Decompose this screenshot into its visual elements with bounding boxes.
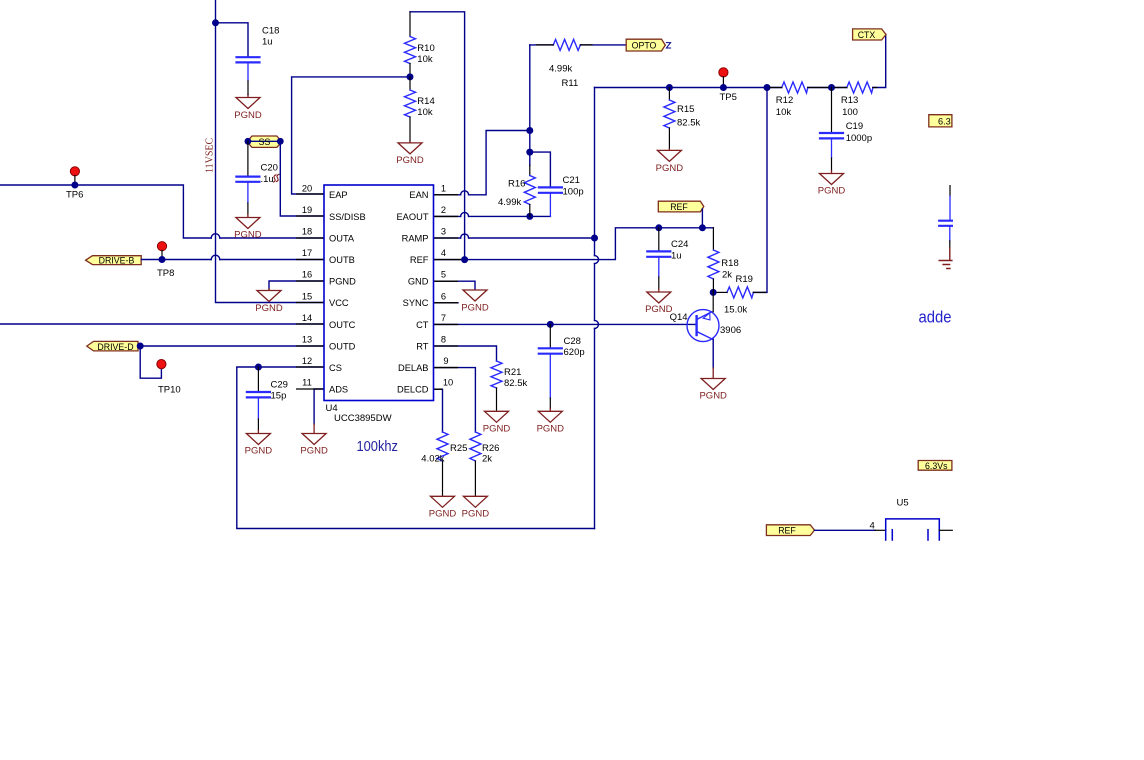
- svg-text:EAP: EAP: [329, 190, 348, 200]
- ground PGND pin11: [302, 424, 326, 445]
- svg-text:PGND: PGND: [537, 424, 565, 435]
- wire CS pin12: [237, 367, 595, 529]
- wire REF label stem: [701, 209, 703, 228]
- svg-text:15.0k: 15.0k: [724, 305, 747, 316]
- svg-text:620p: 620p: [564, 347, 585, 358]
- resistor R10: [409, 12, 411, 37]
- wire VCC vertical 11VSEC: [216, 0, 325, 303]
- port label DRIVE-D: [87, 341, 138, 351]
- svg-text:OUTA: OUTA: [329, 233, 355, 243]
- svg-text:R25: R25: [450, 443, 467, 454]
- capacitor C21: [539, 187, 562, 216]
- not-fitted squiggle on C20 value: [274, 174, 280, 182]
- wire Q14 collector down: [712, 339, 714, 368]
- U4 pin names right: [396, 190, 428, 394]
- wire DRIVE-D to OUTD: [138, 345, 324, 347]
- node R15 top: [666, 84, 673, 91]
- svg-text:PGND: PGND: [461, 303, 489, 314]
- svg-text:PGND: PGND: [645, 304, 673, 315]
- port label 6.3Vs bottom (clipped): [918, 461, 952, 471]
- wire hop riser over CT: [595, 320, 599, 328]
- ground PGND under C18: [236, 95, 260, 109]
- svg-text:15: 15: [302, 291, 312, 301]
- svg-text:1000p: 1000p: [846, 133, 872, 144]
- svg-text:R19: R19: [736, 274, 753, 285]
- ground GND right edge (clipped): [939, 248, 952, 269]
- ground PGND under R15: [657, 149, 681, 162]
- U4 pin names left: [329, 190, 366, 394]
- svg-text:82.5k: 82.5k: [677, 118, 700, 129]
- capacitor C19: [831, 88, 833, 132]
- wire top feedback rail: [595, 35, 886, 88]
- svg-text:SS: SS: [259, 137, 271, 147]
- svg-text:PGND: PGND: [429, 509, 457, 520]
- svg-text:SYNC: SYNC: [403, 298, 429, 308]
- U4 pin numbers left: [302, 183, 312, 387]
- op-amp U5 partial box: [886, 519, 940, 540]
- svg-text:10k: 10k: [776, 107, 792, 118]
- svg-text:17: 17: [302, 248, 312, 258]
- svg-text:10: 10: [443, 378, 453, 388]
- node REF pin4 junction: [461, 256, 468, 263]
- svg-text:DELCD: DELCD: [397, 385, 429, 395]
- resistor R15: [668, 88, 670, 101]
- svg-text:TP6: TP6: [66, 190, 83, 201]
- svg-text:PGND: PGND: [396, 155, 424, 166]
- svg-text:10k: 10k: [417, 54, 433, 65]
- resistor R25: [437, 432, 448, 461]
- wire OUTC pin14: [0, 323, 324, 325]
- svg-text:VCC: VCC: [329, 298, 349, 308]
- port label OPTO: [626, 39, 665, 51]
- svg-text:1u: 1u: [671, 251, 682, 262]
- svg-text:6.3Vs: 6.3Vs: [925, 461, 948, 471]
- ground PGND under C29: [257, 419, 259, 431]
- svg-text:PGND: PGND: [234, 110, 262, 121]
- wire PGND pin16: [269, 281, 324, 289]
- svg-text:U5: U5: [897, 498, 909, 509]
- testpoint TP8: [157, 242, 166, 251]
- wire black leads R11: [537, 44, 593, 46]
- svg-text:REF: REF: [670, 202, 688, 212]
- svg-text:11VSEC: 11VSEC: [205, 137, 216, 173]
- svg-text:4.02k: 4.02k: [421, 454, 444, 465]
- svg-text:RAMP: RAMP: [402, 233, 429, 243]
- wire black lead segments on feedback rail: [770, 87, 877, 89]
- wire to C18: [216, 23, 249, 56]
- ground PGND under R26: [463, 496, 487, 507]
- svg-text:OUTD: OUTD: [329, 341, 356, 351]
- wire R19 riser: [753, 88, 767, 293]
- resistor R19: [727, 287, 753, 298]
- node SS right: [277, 138, 284, 145]
- node DRIVE-D junction: [137, 343, 144, 350]
- ground PGND under C19: [831, 158, 833, 171]
- wire GND pin5 to ground: [434, 281, 476, 289]
- svg-text:OPTO: OPTO: [632, 40, 657, 50]
- op-amp U4 UCC3895DW box: [324, 185, 434, 401]
- svg-text:14: 14: [302, 313, 312, 323]
- wire REF pin4: [434, 228, 714, 260]
- ground PGND under R14: [398, 142, 422, 154]
- testpoint TP6: [70, 167, 79, 176]
- svg-text:7: 7: [441, 313, 446, 323]
- port label 6.3 top right (clipped): [929, 115, 952, 127]
- resistor R16: [529, 166, 531, 176]
- wire to TP10: [140, 346, 161, 378]
- svg-text:PGND: PGND: [818, 186, 846, 197]
- svg-text:R12: R12: [776, 95, 793, 106]
- svg-text:CT: CT: [416, 320, 429, 330]
- svg-text:TP10: TP10: [158, 385, 181, 396]
- node TP8 junction: [159, 256, 166, 263]
- node SS left: [245, 138, 252, 145]
- testpoint TP5: [719, 68, 728, 77]
- svg-text:100: 100: [842, 107, 858, 118]
- wire R10 top to REF vertical: [410, 12, 465, 260]
- wire R11 vertical: [529, 45, 531, 166]
- svg-text:6.3: 6.3: [938, 117, 951, 127]
- port label REF bottom: [766, 525, 814, 536]
- svg-text:4: 4: [441, 248, 446, 258]
- svg-text:2k: 2k: [482, 454, 492, 465]
- ground PGND under R25: [431, 496, 455, 507]
- svg-text:16: 16: [302, 270, 312, 280]
- port label REF: [658, 201, 704, 212]
- svg-text:CTX: CTX: [858, 30, 876, 40]
- node C24 top: [655, 224, 662, 231]
- wire black lead R19 right: [753, 291, 765, 293]
- wire DELAB pin9: [434, 368, 476, 432]
- svg-text:4.99k: 4.99k: [498, 197, 521, 208]
- svg-text:R15: R15: [677, 104, 694, 115]
- svg-text:ADS: ADS: [329, 385, 348, 395]
- wire EAP pin20 to divider: [292, 77, 410, 194]
- ground PGND pin5: [463, 290, 487, 301]
- svg-text:12: 12: [302, 356, 312, 366]
- port label DRIVE-B: [86, 256, 142, 265]
- testpoint TP10: [157, 360, 166, 369]
- node CS/C29 junction: [255, 364, 262, 371]
- ground PGND under C24: [658, 277, 660, 289]
- capacitor C18: [237, 57, 260, 81]
- node C21 top tap: [526, 149, 533, 156]
- wire hop riser over REF: [595, 256, 599, 264]
- svg-text:SS/DISB: SS/DISB: [329, 212, 366, 222]
- svg-text:82.5k: 82.5k: [504, 378, 527, 389]
- svg-text:PGND: PGND: [656, 163, 684, 174]
- resistor R12: [782, 82, 808, 93]
- wire C21 branch: [530, 152, 551, 186]
- wire SS to C20: [247, 141, 249, 175]
- svg-text:C19: C19: [846, 121, 863, 132]
- node R18/R19/Q14 junction: [710, 289, 717, 296]
- svg-text:2: 2: [441, 205, 446, 215]
- svg-text:8: 8: [441, 335, 446, 345]
- wire SS to SS/DISB pin19: [280, 141, 324, 216]
- svg-text:C24: C24: [671, 239, 688, 250]
- ground PGND under Q14: [701, 368, 725, 390]
- port label CTX: [853, 29, 886, 40]
- svg-text:R26: R26: [482, 443, 499, 454]
- node R19 riser top: [764, 84, 771, 91]
- ground PGND under C28: [549, 398, 551, 408]
- svg-text:19: 19: [302, 205, 312, 215]
- svg-text:R18: R18: [721, 258, 738, 269]
- svg-text:C18: C18: [262, 26, 279, 37]
- svg-text:C29: C29: [271, 380, 288, 391]
- node VCC/C18 junction: [212, 19, 219, 26]
- ground PGND under C20: [247, 203, 249, 215]
- node TP5 junction: [720, 84, 727, 91]
- svg-text:PGND: PGND: [329, 277, 356, 287]
- svg-text:EAN: EAN: [409, 190, 428, 200]
- svg-text:100khz: 100khz: [357, 439, 399, 455]
- svg-text:R21: R21: [504, 367, 521, 378]
- svg-text:R11: R11: [562, 78, 579, 89]
- svg-text:PGND: PGND: [462, 509, 490, 520]
- wire ADS pin11 to ground: [314, 389, 324, 424]
- svg-text:20: 20: [302, 183, 312, 193]
- svg-text:R13: R13: [841, 95, 858, 106]
- resistor R18: [712, 228, 714, 250]
- svg-text:4: 4: [870, 521, 875, 532]
- svg-text:15p: 15p: [271, 391, 287, 402]
- wire REF to U5 pin4: [815, 529, 876, 531]
- wire RAMP/CS vertical riser with hops: [594, 88, 596, 529]
- svg-text:REF: REF: [410, 255, 429, 265]
- svg-text:RT: RT: [416, 341, 429, 351]
- node RAMP riser junction: [591, 235, 598, 242]
- resistor R11 horizontal: [530, 44, 554, 46]
- svg-text:OUTC: OUTC: [329, 320, 356, 330]
- svg-text:OUTB: OUTB: [329, 255, 355, 265]
- svg-text:PGND: PGND: [300, 446, 328, 457]
- wire hop EAN: [461, 191, 469, 195]
- svg-text:R10: R10: [417, 43, 434, 54]
- svg-text:R14: R14: [417, 96, 434, 107]
- svg-text:11: 11: [302, 378, 312, 388]
- svg-text:6: 6: [441, 291, 446, 301]
- svg-text:2k: 2k: [722, 270, 732, 281]
- svg-text:5: 5: [441, 270, 446, 280]
- pin leads black: [296, 194, 461, 389]
- capacitor C20: [236, 177, 259, 203]
- resistor R26: [470, 432, 481, 461]
- port label SS: [247, 136, 282, 147]
- svg-text:CS: CS: [329, 363, 342, 373]
- svg-text:TP5: TP5: [720, 92, 737, 103]
- ground PGND pin16: [257, 289, 281, 302]
- svg-text:C28: C28: [564, 336, 581, 347]
- node TP6 junction: [71, 182, 78, 189]
- resistor R14: [409, 77, 411, 90]
- pin SYNC stub: [434, 302, 459, 304]
- capacitor C28: [549, 324, 551, 347]
- svg-text:C21: C21: [563, 175, 580, 186]
- wire EAOUT pin2 with hop: [434, 215, 551, 217]
- wire DELCD pin10: [434, 389, 443, 432]
- svg-text:.1u: .1u: [261, 174, 274, 185]
- node REF label stem: [699, 224, 706, 231]
- wire EAN pin1 with hop: [434, 131, 530, 195]
- wire TP6 net to OUTA: [0, 185, 324, 238]
- capacitor right edge (clipped): [949, 186, 951, 196]
- wire RT pin8: [434, 346, 497, 361]
- svg-text:R16: R16: [508, 179, 525, 190]
- svg-text:3: 3: [441, 227, 446, 237]
- svg-text:PGND: PGND: [255, 303, 283, 314]
- capacitor C29: [257, 367, 259, 391]
- svg-text:PGND: PGND: [234, 230, 262, 241]
- node CT/C28 junction: [547, 321, 554, 328]
- wire hop RAMP: [461, 234, 469, 238]
- wire RAMP pin3 with hop: [434, 237, 595, 239]
- svg-text:DELAB: DELAB: [398, 363, 429, 373]
- svg-text:3906: 3906: [720, 325, 741, 336]
- svg-text:13: 13: [302, 335, 312, 345]
- transistor Q14 PNP 3906: [687, 310, 719, 342]
- svg-text:UCC3895DW: UCC3895DW: [334, 413, 392, 424]
- svg-text:TP8: TP8: [157, 268, 174, 279]
- svg-text:Q14: Q14: [670, 312, 688, 323]
- svg-text:REF: REF: [778, 525, 796, 535]
- wire hop EAOUT: [461, 212, 469, 216]
- wire DRIVE-B to OUTB: [141, 259, 324, 261]
- node R16 bottom / EAOUT: [526, 213, 533, 220]
- svg-text:DRIVE-B: DRIVE-B: [99, 256, 135, 266]
- svg-text:PGND: PGND: [245, 446, 273, 457]
- svg-text:9: 9: [443, 356, 448, 366]
- svg-text:EAOUT: EAOUT: [396, 212, 428, 222]
- svg-text:18: 18: [302, 227, 312, 237]
- node R11 bottom / EAN: [526, 127, 533, 134]
- svg-text:C20: C20: [261, 163, 278, 174]
- node R10/R14 junction: [407, 73, 414, 80]
- wire hop OUTA over VCC: [211, 234, 220, 238]
- capacitor C24: [658, 228, 660, 251]
- wire hop OUTB over VCC: [211, 255, 220, 259]
- off-page marker after OPTO: [666, 43, 670, 48]
- svg-text:4.99k: 4.99k: [549, 64, 572, 75]
- svg-text:10k: 10k: [417, 107, 433, 118]
- svg-text:PGND: PGND: [483, 424, 511, 435]
- ground PGND under R21: [485, 411, 509, 422]
- svg-text:PGND: PGND: [699, 391, 727, 402]
- svg-text:adde: adde: [919, 309, 952, 327]
- svg-text:1: 1: [441, 183, 446, 193]
- resistor R13: [847, 82, 873, 93]
- U4 pin numbers right: [441, 183, 453, 387]
- svg-text:1u: 1u: [262, 37, 273, 48]
- wire Q14 emitter up: [712, 292, 714, 311]
- node C19 junction: [828, 84, 835, 91]
- svg-text:100p: 100p: [563, 187, 584, 198]
- resistor R21: [491, 361, 502, 388]
- wire CT pin7 to Q14 base: [434, 323, 697, 325]
- wire U5 right stub (clipped): [939, 529, 952, 531]
- svg-text:GND: GND: [408, 277, 429, 287]
- svg-text:DRIVE-D: DRIVE-D: [97, 342, 133, 352]
